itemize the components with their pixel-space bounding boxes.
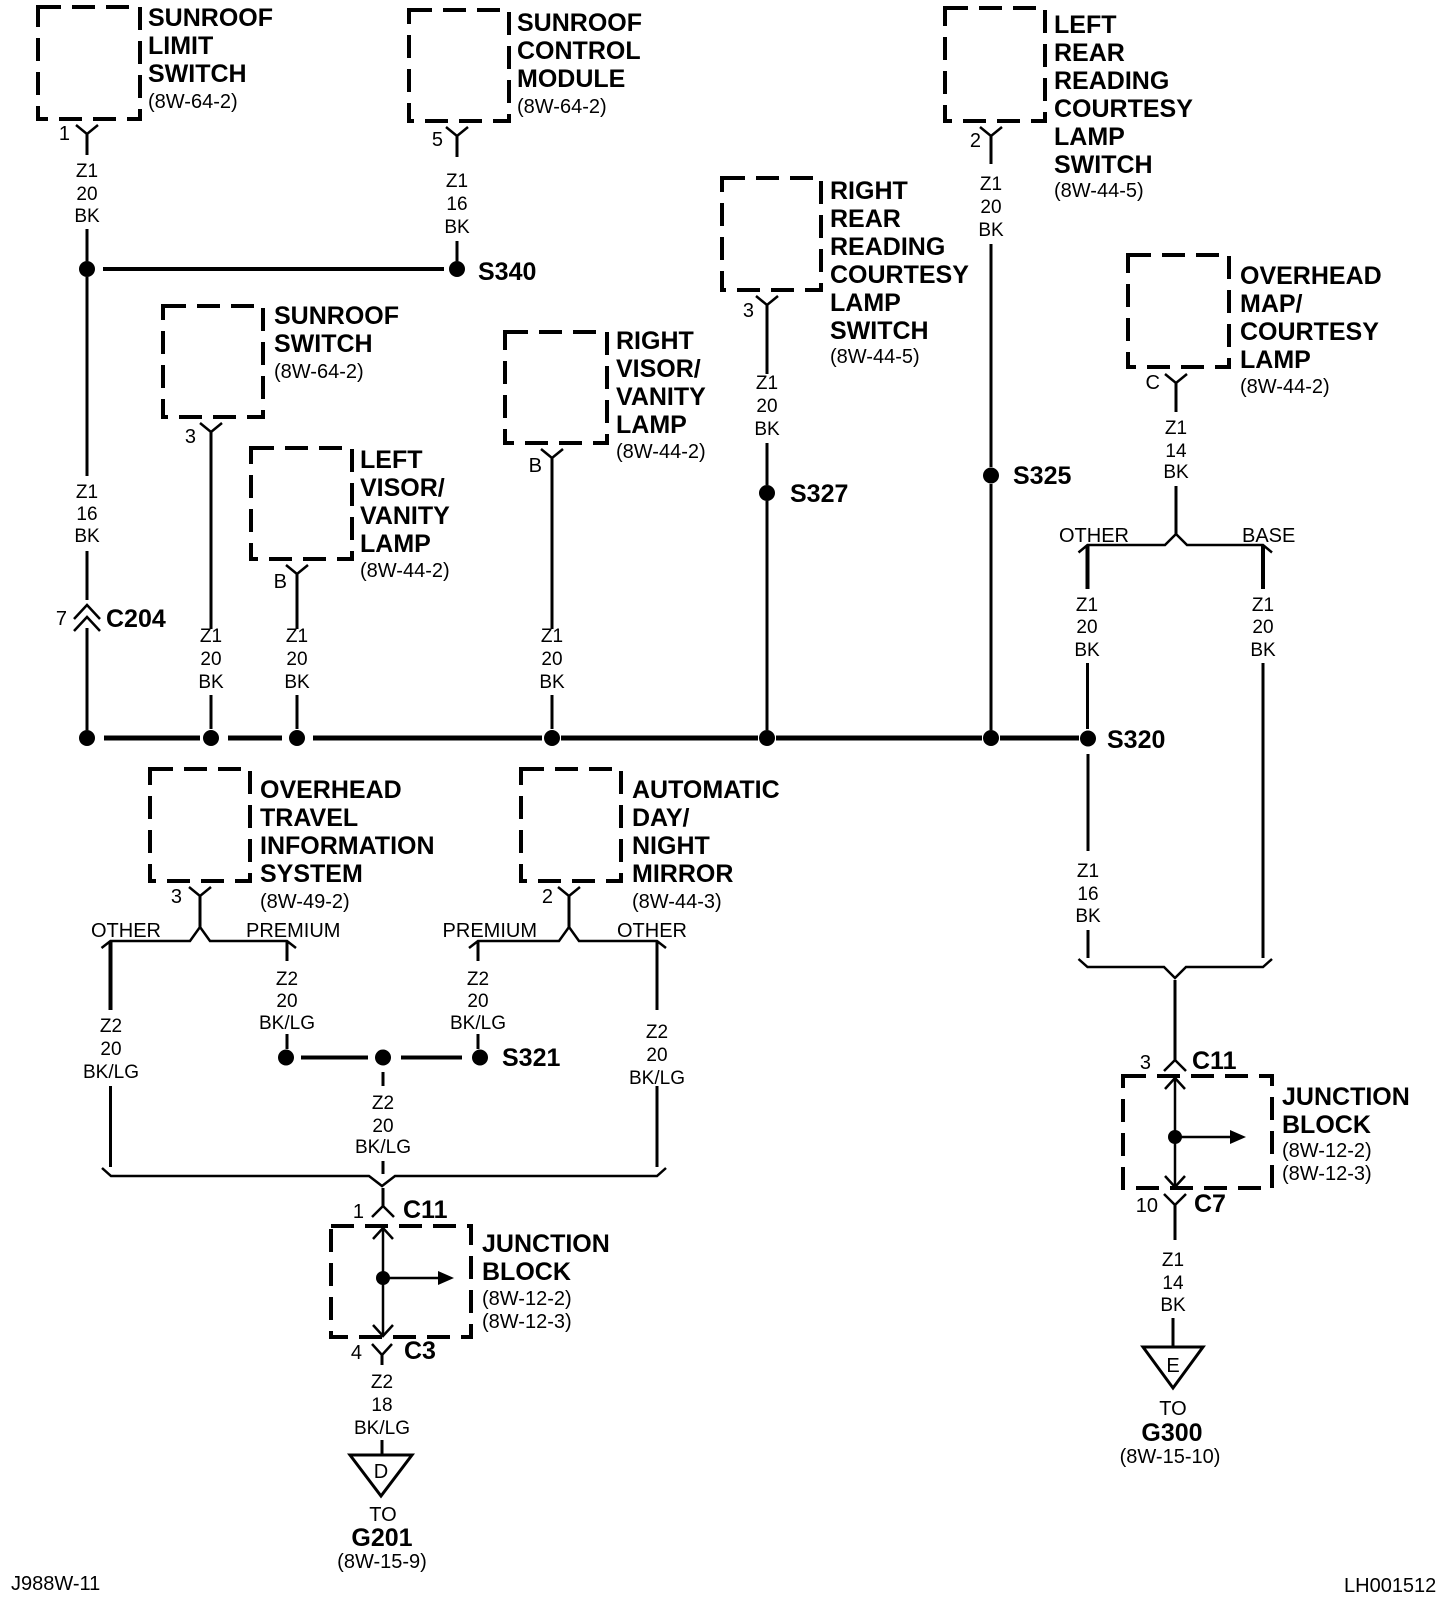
wire from right rear lamp switch down bbox=[766, 305, 769, 374]
wire Z1 14 BK down to ground E bbox=[1172, 1318, 1175, 1346]
svg-text:Z2: Z2 bbox=[100, 1016, 122, 1037]
wire stub below pin 5 fork bbox=[456, 136, 459, 157]
svg-text:Z1: Z1 bbox=[1162, 1250, 1184, 1271]
svg-text:BK: BK bbox=[1250, 640, 1276, 661]
wire Z1 16 BK down to C204 bbox=[86, 551, 89, 600]
component box: right visor/vanity lamp bbox=[505, 332, 607, 443]
svg-text:7: 7 bbox=[56, 608, 67, 630]
connector pin fork, right rear lamp switch pin 3 bbox=[756, 296, 778, 305]
svg-text:Z1: Z1 bbox=[1076, 595, 1098, 616]
wire label Z2 20 BK/LG (mirror PREMIUM) bbox=[450, 969, 506, 1034]
svg-text:JUNCTION: JUNCTION bbox=[482, 1230, 610, 1258]
svg-text:Z2: Z2 bbox=[467, 969, 489, 990]
svg-text:C: C bbox=[1146, 372, 1160, 394]
wire S321 segment right bbox=[401, 1056, 462, 1060]
wire Z2 18 BK/LG down to ground D bbox=[381, 1440, 384, 1455]
svg-text:4: 4 bbox=[351, 1342, 362, 1364]
svg-text:BK: BK bbox=[539, 672, 565, 693]
wire Z1 20 BK to ground bus (col 4) bbox=[296, 695, 299, 729]
svg-text:20: 20 bbox=[100, 1039, 121, 1060]
ground destination label TO G300 bbox=[1120, 1398, 1221, 1468]
wire S340 horizontal bbox=[103, 267, 444, 271]
bus junction dot col 5 bbox=[544, 730, 560, 746]
wire Z1 16 BK down to merge brace bbox=[1087, 930, 1090, 958]
svg-text:SUNROOF: SUNROOF bbox=[148, 4, 273, 32]
svg-text:BK/LG: BK/LG bbox=[354, 1418, 410, 1439]
svg-text:Z2: Z2 bbox=[372, 1093, 394, 1114]
component box: left visor/vanity lamp bbox=[251, 448, 352, 559]
wire from merge brace down to C11 (left) bbox=[382, 1188, 385, 1206]
svg-text:D: D bbox=[374, 1461, 388, 1483]
wire label Z1 16 BK (below S320) bbox=[1075, 861, 1101, 927]
svg-text:S325: S325 bbox=[1013, 462, 1071, 490]
bus junction dot col 3 bbox=[203, 730, 219, 746]
svg-text:S340: S340 bbox=[478, 258, 536, 286]
svg-text:MODULE: MODULE bbox=[517, 65, 625, 93]
wire OTHER branch down to merge (mirror) bbox=[656, 1086, 659, 1167]
svg-text:LIMIT: LIMIT bbox=[148, 32, 213, 60]
wire PREMIUM branch stub (mirror) bbox=[477, 942, 480, 961]
svg-text:(8W-64-2): (8W-64-2) bbox=[148, 91, 238, 113]
wire Z1 16 BK down to S340 bbox=[456, 241, 459, 261]
wire Z1 20 BK to ground bus (col 3) bbox=[210, 695, 213, 729]
junction block (left) bbox=[331, 1226, 471, 1337]
svg-text:LEFT: LEFT bbox=[1054, 11, 1117, 39]
wire label Z1 16 BK (col 2) bbox=[444, 171, 470, 238]
svg-text:SWITCH: SWITCH bbox=[1054, 151, 1153, 179]
svg-text:20: 20 bbox=[276, 991, 297, 1012]
svg-text:(8W-64-2): (8W-64-2) bbox=[517, 96, 607, 118]
splice S321 middle dot bbox=[375, 1050, 391, 1066]
svg-text:Z1: Z1 bbox=[541, 626, 563, 647]
connector pin fork, left rear lamp switch pin 2 bbox=[980, 127, 1002, 136]
wire PREMIUM branch to S321 (mirror) bbox=[477, 1034, 480, 1049]
svg-text:MAP/: MAP/ bbox=[1240, 290, 1303, 318]
svg-text:C204: C204 bbox=[106, 605, 166, 633]
svg-text:E: E bbox=[1166, 1355, 1179, 1377]
svg-text:REAR: REAR bbox=[1054, 39, 1125, 67]
label: right rear reading courtesy lamp switch bbox=[830, 177, 969, 368]
wire label Z1 20 BK (col 5) bbox=[539, 626, 565, 693]
wire below S320 bbox=[1087, 754, 1090, 851]
svg-text:20: 20 bbox=[1076, 617, 1097, 638]
label: junction block (left) bbox=[482, 1230, 610, 1333]
svg-text:C11: C11 bbox=[403, 1196, 448, 1224]
label: left visor/vanity lamp bbox=[360, 446, 450, 582]
component box: sunroof control module bbox=[409, 10, 509, 121]
svg-text:BK: BK bbox=[74, 206, 100, 227]
wire Z1 14 BK down to option split bbox=[1175, 486, 1178, 535]
svg-text:20: 20 bbox=[980, 197, 1001, 218]
wire label Z2 20 BK/LG (mirror OTHER) bbox=[629, 1022, 685, 1089]
svg-text:REAR: REAR bbox=[830, 205, 901, 233]
svg-text:(8W-15-9): (8W-15-9) bbox=[337, 1551, 427, 1573]
svg-text:VISOR/: VISOR/ bbox=[616, 355, 701, 383]
svg-text:BK/LG: BK/LG bbox=[629, 1068, 685, 1089]
svg-text:DAY/: DAY/ bbox=[632, 804, 689, 832]
svg-text:VANITY: VANITY bbox=[616, 383, 706, 411]
wire stub below pin C fork bbox=[1175, 383, 1178, 412]
splice S321 left dot bbox=[278, 1050, 294, 1066]
svg-text:3: 3 bbox=[743, 300, 754, 322]
junction block (right) bbox=[1123, 1076, 1272, 1188]
component box: sunroof switch bbox=[163, 306, 263, 417]
wire S321 segment left bbox=[301, 1056, 368, 1060]
svg-text:Z1: Z1 bbox=[980, 174, 1002, 195]
wire below C204 to ground bus bbox=[86, 628, 89, 730]
wire label Z1 20 BK (col 1 upper) bbox=[74, 161, 100, 227]
ground bus wire segment 6 bbox=[1000, 736, 1079, 741]
svg-text:14: 14 bbox=[1162, 1273, 1184, 1294]
svg-text:SUNROOF: SUNROOF bbox=[517, 9, 642, 37]
wire stub below travel info pin 3 bbox=[199, 896, 202, 927]
junction block internal dot (left) bbox=[376, 1271, 390, 1285]
junction block branch arrow (right) bbox=[1175, 1136, 1230, 1139]
wire from right visor lamp pin B down bbox=[551, 458, 554, 629]
svg-text:COURTESY: COURTESY bbox=[1240, 318, 1379, 346]
in-line connector C204 chevrons bbox=[74, 605, 100, 619]
svg-text:BK: BK bbox=[284, 672, 310, 693]
svg-text:VANITY: VANITY bbox=[360, 502, 450, 530]
wire OTHER branch down to S320 bbox=[1086, 663, 1089, 729]
svg-text:OTHER: OTHER bbox=[1059, 525, 1129, 547]
svg-text:16: 16 bbox=[1077, 884, 1098, 905]
svg-text:(8W-12-2): (8W-12-2) bbox=[1282, 1140, 1372, 1162]
svg-text:BLOCK: BLOCK bbox=[482, 1258, 571, 1286]
wire label Z1 14 BK (col 8) bbox=[1163, 418, 1189, 483]
svg-text:(8W-44-5): (8W-44-5) bbox=[830, 346, 920, 368]
svg-text:S320: S320 bbox=[1107, 726, 1165, 754]
wire PREMIUM branch stub (travel info) bbox=[286, 942, 289, 961]
svg-text:Z1: Z1 bbox=[1077, 861, 1099, 882]
splice S340 dot bbox=[449, 261, 465, 277]
svg-text:BLOCK: BLOCK bbox=[1282, 1111, 1371, 1139]
svg-text:VISOR/: VISOR/ bbox=[360, 474, 445, 502]
junction block internal wire (left) bbox=[382, 1227, 385, 1336]
svg-text:(8W-44-3): (8W-44-3) bbox=[632, 891, 722, 913]
svg-text:10: 10 bbox=[1136, 1195, 1158, 1217]
ground symbol D triangle bbox=[350, 1455, 412, 1496]
label: sunroof limit switch bbox=[148, 4, 273, 113]
wire label Z2 20 BK/LG (below S321) bbox=[355, 1093, 411, 1158]
component box: right rear reading courtesy lamp switch bbox=[722, 178, 821, 290]
connector C7 fork bbox=[1164, 1194, 1186, 1205]
svg-text:NIGHT: NIGHT bbox=[632, 832, 710, 860]
label: sunroof switch bbox=[274, 302, 399, 383]
option split brace OTHER/BASE bbox=[1079, 534, 1273, 553]
junction block exit arrow (right, down) bbox=[1165, 1176, 1185, 1187]
splice S320 dot bbox=[1080, 731, 1096, 747]
bus junction dot col 6 bbox=[759, 730, 775, 746]
svg-text:18: 18 bbox=[371, 1395, 392, 1416]
svg-text:OTHER: OTHER bbox=[617, 920, 687, 942]
svg-text:BK: BK bbox=[1160, 1295, 1186, 1316]
svg-text:1: 1 bbox=[353, 1201, 364, 1223]
svg-text:BK: BK bbox=[1074, 640, 1100, 661]
svg-text:20: 20 bbox=[541, 649, 562, 670]
label: junction block (right) bbox=[1282, 1083, 1410, 1185]
svg-text:20: 20 bbox=[372, 1116, 393, 1137]
label: overhead map/courtesy lamp bbox=[1240, 262, 1382, 398]
svg-text:LAMP: LAMP bbox=[830, 289, 901, 317]
svg-text:(8W-44-5): (8W-44-5) bbox=[1054, 180, 1144, 202]
svg-text:BK: BK bbox=[74, 526, 100, 547]
wire label Z1 20 BK (OTHER branch) bbox=[1074, 595, 1100, 661]
svg-text:3: 3 bbox=[171, 886, 182, 908]
ground bus wire segment 1 bbox=[104, 736, 200, 741]
ground bus wire segment 4 bbox=[561, 736, 758, 741]
component box: sunroof limit switch bbox=[38, 7, 140, 119]
junction block exit arrow (left, down) bbox=[373, 1325, 393, 1336]
svg-text:(8W-44-2): (8W-44-2) bbox=[360, 560, 450, 582]
svg-text:BASE: BASE bbox=[1242, 525, 1295, 547]
svg-text:(8W-49-2): (8W-49-2) bbox=[260, 891, 350, 913]
svg-text:READING: READING bbox=[830, 233, 945, 261]
svg-text:J988W-11: J988W-11 bbox=[11, 1573, 100, 1595]
svg-text:OVERHEAD: OVERHEAD bbox=[260, 776, 402, 804]
svg-text:SWITCH: SWITCH bbox=[830, 317, 929, 345]
svg-text:BK/LG: BK/LG bbox=[355, 1137, 411, 1158]
wire Z1 20 BK to ground bus (col 5) bbox=[551, 695, 554, 729]
svg-text:16: 16 bbox=[446, 194, 467, 215]
svg-text:C11: C11 bbox=[1192, 1047, 1237, 1075]
wire label Z1 20 BK (col 3) bbox=[198, 626, 224, 693]
wire Z1 20 BK down to S327 bbox=[766, 443, 769, 485]
svg-text:Z1: Z1 bbox=[76, 482, 98, 503]
wire BASE branch upper stub bbox=[1261, 546, 1265, 589]
svg-text:AUTOMATIC: AUTOMATIC bbox=[632, 776, 780, 804]
svg-text:COURTESY: COURTESY bbox=[830, 261, 969, 289]
svg-text:Z2: Z2 bbox=[371, 1372, 393, 1393]
svg-text:Z1: Z1 bbox=[286, 626, 308, 647]
svg-text:BK: BK bbox=[444, 217, 470, 238]
svg-text:G201: G201 bbox=[351, 1524, 412, 1552]
svg-text:OTHER: OTHER bbox=[91, 920, 161, 942]
svg-text:SWITCH: SWITCH bbox=[148, 60, 247, 88]
component box: automatic day/night mirror bbox=[521, 769, 621, 881]
wire OTHER branch down (mirror) bbox=[656, 942, 659, 1010]
wire below S325 to ground bus bbox=[990, 484, 993, 730]
junction block entry arrow (left, up) bbox=[373, 1228, 393, 1239]
svg-text:CONTROL: CONTROL bbox=[517, 37, 641, 65]
svg-text:B: B bbox=[529, 455, 542, 477]
svg-text:20: 20 bbox=[467, 991, 488, 1012]
ground destination label TO G201 bbox=[337, 1504, 427, 1573]
component box: left rear reading courtesy lamp switch bbox=[945, 8, 1045, 121]
svg-text:20: 20 bbox=[1252, 617, 1273, 638]
svg-text:Z1: Z1 bbox=[1252, 595, 1274, 616]
wire Z1 20 BK down to S325 bbox=[990, 244, 993, 467]
connector pin fork, left visor lamp pin B bbox=[286, 565, 308, 574]
connector pin fork, auto mirror pin 2 bbox=[558, 887, 580, 896]
svg-text:BK: BK bbox=[1163, 462, 1189, 483]
wire PREMIUM branch to S321 bbox=[286, 1034, 289, 1049]
svg-text:(8W-44-2): (8W-44-2) bbox=[1240, 376, 1330, 398]
wire BASE branch down to merge bbox=[1262, 663, 1265, 958]
splice S327 dot bbox=[759, 485, 775, 501]
svg-text:TO: TO bbox=[369, 1504, 396, 1526]
merge brace joining OTHER and BASE branches (right) bbox=[1079, 959, 1273, 978]
svg-text:(8W-64-2): (8W-64-2) bbox=[274, 361, 364, 383]
splice S321 right dot bbox=[472, 1050, 488, 1066]
svg-text:20: 20 bbox=[76, 184, 97, 205]
svg-text:SWITCH: SWITCH bbox=[274, 330, 373, 358]
wire label Z2 20 BK/LG (travel info PREMIUM) bbox=[259, 969, 315, 1034]
wire label Z1 20 BK (col 4) bbox=[284, 626, 310, 693]
svg-text:C3: C3 bbox=[404, 1337, 436, 1365]
svg-text:LAMP: LAMP bbox=[1240, 346, 1311, 374]
junction block internal wire (right) bbox=[1174, 1077, 1177, 1187]
svg-text:JUNCTION: JUNCTION bbox=[1282, 1083, 1410, 1111]
svg-text:OVERHEAD: OVERHEAD bbox=[1240, 262, 1382, 290]
junction block branch arrow (left) bbox=[383, 1277, 438, 1280]
svg-text:Z1: Z1 bbox=[446, 171, 468, 192]
wire OTHER branch upper stub bbox=[1086, 546, 1090, 589]
svg-text:LAMP: LAMP bbox=[616, 411, 687, 439]
wire stub below C3 fork bbox=[381, 1355, 384, 1365]
svg-text:LH001512: LH001512 bbox=[1344, 1575, 1436, 1597]
connector pin fork, sunroof control module pin 5 bbox=[446, 127, 468, 136]
svg-text:BK/LG: BK/LG bbox=[83, 1062, 139, 1083]
svg-text:B: B bbox=[274, 571, 287, 593]
splice S325 dot bbox=[983, 468, 999, 484]
wire Z2 20 BK/LG down to merge brace bbox=[382, 1161, 385, 1174]
svg-text:16: 16 bbox=[76, 504, 97, 525]
wire stub below mirror pin 2 bbox=[568, 896, 571, 927]
svg-text:20: 20 bbox=[286, 649, 307, 670]
component box: overhead travel information system bbox=[150, 769, 250, 881]
option split brace PREMIUM/OTHER (mirror) bbox=[469, 927, 666, 948]
svg-text:(8W-44-2): (8W-44-2) bbox=[616, 441, 706, 463]
ground bus wire segment 5 bbox=[776, 736, 982, 741]
svg-text:(8W-12-3): (8W-12-3) bbox=[1282, 1163, 1372, 1185]
ground bus wire segment 2 bbox=[228, 736, 282, 741]
svg-text:Z1: Z1 bbox=[200, 626, 222, 647]
svg-text:SUNROOF: SUNROOF bbox=[274, 302, 399, 330]
svg-text:Z1: Z1 bbox=[1165, 418, 1187, 439]
svg-text:READING: READING bbox=[1054, 67, 1169, 95]
svg-text:RIGHT: RIGHT bbox=[616, 327, 694, 355]
ground symbol E triangle bbox=[1143, 1347, 1203, 1388]
svg-text:5: 5 bbox=[432, 129, 443, 151]
connector pin fork, sunroof switch pin 3 bbox=[200, 423, 222, 432]
svg-text:COURTESY: COURTESY bbox=[1054, 95, 1193, 123]
component box: overhead map/courtesy lamp bbox=[1128, 255, 1229, 367]
bus junction dot col 4 bbox=[289, 730, 305, 746]
wire stub below pin 1 fork bbox=[86, 134, 89, 155]
svg-text:PREMIUM: PREMIUM bbox=[246, 920, 340, 942]
connector pin fork, right visor lamp pin B bbox=[541, 449, 563, 458]
wire label Z1 20 BK (BASE branch) bbox=[1250, 595, 1276, 661]
svg-text:Z1: Z1 bbox=[756, 373, 778, 394]
svg-text:Z2: Z2 bbox=[646, 1022, 668, 1043]
svg-text:14: 14 bbox=[1165, 441, 1187, 462]
label: right visor/vanity lamp bbox=[616, 327, 706, 463]
wire stub below pin 2 fork bbox=[990, 136, 993, 164]
wire below S340 junction (col 1) bbox=[86, 277, 89, 476]
svg-text:MIRROR: MIRROR bbox=[632, 860, 733, 888]
svg-text:1: 1 bbox=[59, 123, 70, 145]
svg-text:BK: BK bbox=[978, 220, 1004, 241]
connector C3 fork bbox=[372, 1344, 392, 1355]
svg-text:3: 3 bbox=[1140, 1052, 1151, 1074]
svg-text:BK/LG: BK/LG bbox=[259, 1013, 315, 1034]
wire OTHER branch stub (travel info) bbox=[109, 942, 113, 1010]
wire from left visor lamp pin B down bbox=[296, 574, 299, 629]
svg-text:LEFT: LEFT bbox=[360, 446, 423, 474]
svg-text:INFORMATION: INFORMATION bbox=[260, 832, 435, 860]
label: automatic day/night mirror bbox=[632, 776, 780, 913]
wire from merge brace down to C11 bbox=[1174, 980, 1177, 1060]
svg-text:BK: BK bbox=[198, 672, 224, 693]
wire label Z1 14 BK (below C7) bbox=[1160, 1250, 1186, 1316]
wire label Z2 18 BK/LG (below C3) bbox=[354, 1372, 410, 1439]
svg-text:C7: C7 bbox=[1194, 1190, 1226, 1218]
junction block internal dot (right) bbox=[1168, 1130, 1182, 1144]
svg-text:G300: G300 bbox=[1141, 1419, 1202, 1447]
wire Z1 20 BK down to S340 bbox=[86, 229, 89, 261]
wire label Z1 16 BK (col 1 lower) bbox=[74, 482, 100, 547]
option split brace OTHER/PREMIUM (travel info) bbox=[102, 927, 297, 948]
svg-text:2: 2 bbox=[970, 130, 981, 152]
svg-text:(8W-15-10): (8W-15-10) bbox=[1120, 1446, 1221, 1468]
svg-text:(8W-12-3): (8W-12-3) bbox=[482, 1311, 572, 1333]
label: overhead travel information system bbox=[260, 776, 435, 913]
svg-text:S321: S321 bbox=[502, 1044, 560, 1072]
svg-text:TO: TO bbox=[1159, 1398, 1186, 1420]
connector pin fork, overhead map lamp pin C bbox=[1165, 374, 1187, 383]
svg-text:TRAVEL: TRAVEL bbox=[260, 804, 358, 832]
svg-text:BK: BK bbox=[754, 419, 780, 440]
connector pin fork, travel info system pin 3 bbox=[189, 887, 211, 896]
label: left rear reading courtesy lamp switch bbox=[1054, 11, 1193, 202]
svg-text:Z1: Z1 bbox=[76, 161, 98, 182]
wire label Z1 20 BK (col 7) bbox=[978, 174, 1004, 241]
bus junction dot col 1 bbox=[79, 730, 95, 746]
wire label Z2 20 BK/LG (travel info OTHER) bbox=[83, 1016, 139, 1083]
junction block entry arrow (right, up) bbox=[1165, 1078, 1185, 1089]
connector C11 fork (left) bbox=[372, 1206, 394, 1217]
wire from sunroof switch pin 3 down bbox=[210, 432, 213, 629]
svg-text:3: 3 bbox=[185, 426, 196, 448]
svg-text:BK/LG: BK/LG bbox=[450, 1013, 506, 1034]
wire below S327 to ground bus bbox=[766, 501, 769, 730]
connector C11 fork (right) bbox=[1164, 1060, 1186, 1071]
svg-text:20: 20 bbox=[200, 649, 221, 670]
svg-text:S327: S327 bbox=[790, 480, 848, 508]
svg-text:LAMP: LAMP bbox=[1054, 123, 1125, 151]
wire label Z1 20 BK (col 6) bbox=[754, 373, 780, 440]
merge brace joining branches (left bottom) bbox=[102, 1168, 666, 1186]
svg-text:BK: BK bbox=[1075, 906, 1101, 927]
svg-text:SYSTEM: SYSTEM bbox=[260, 860, 363, 888]
wire below S321 middle dot bbox=[382, 1072, 385, 1086]
svg-text:LAMP: LAMP bbox=[360, 530, 431, 558]
svg-text:PREMIUM: PREMIUM bbox=[443, 920, 537, 942]
ground bus wire segment 3 bbox=[313, 736, 542, 741]
wire OTHER branch down to merge (travel info) bbox=[109, 1086, 112, 1167]
connector pin fork, sunroof limit switch pin 1 bbox=[76, 125, 98, 134]
bus junction dot col 7 bbox=[983, 730, 999, 746]
wire stub below C7 fork bbox=[1174, 1205, 1177, 1240]
svg-text:20: 20 bbox=[646, 1045, 667, 1066]
svg-text:2: 2 bbox=[542, 886, 553, 908]
svg-text:Z2: Z2 bbox=[276, 969, 298, 990]
junction dot at S340 left bbox=[79, 261, 95, 277]
svg-text:RIGHT: RIGHT bbox=[830, 177, 908, 205]
svg-text:(8W-12-2): (8W-12-2) bbox=[482, 1288, 572, 1310]
svg-text:20: 20 bbox=[756, 396, 777, 417]
